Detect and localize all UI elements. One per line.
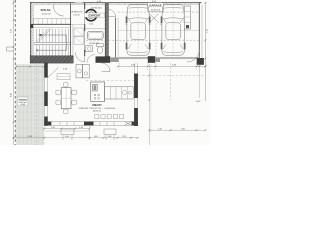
living room left wall (43, 63, 45, 126)
svg-text:DNEVNI PROSTOR + KUHINJA: DNEVNI PROSTOR + KUHINJA (79, 107, 115, 110)
car 2 (160, 5, 186, 56)
hallway wall (84, 3, 86, 56)
terrace paving (shaded) (16, 64, 44, 145)
skylight circle (bold) (85, 10, 96, 21)
svg-text:VETROLOV: VETROLOV (71, 12, 83, 14)
svg-text:5,75: 5,75 (11, 29, 13, 33)
svg-text:4,30: 4,30 (65, 136, 69, 138)
garage exterior door swing (187, 50, 199, 62)
top outer wall (30, 2, 202, 4)
svg-text:12,50 m2: 12,50 m2 (41, 13, 51, 15)
kitchen counter run (105, 87, 134, 99)
stair flight 1 treads (37, 29, 69, 42)
exterior dashed horizontal (138, 74, 205, 76)
dining table (61, 88, 71, 109)
sink (86, 46, 93, 52)
bench outside right (104, 129, 116, 134)
left bench flag (7, 47, 14, 51)
bathtub (87, 31, 103, 39)
vertical line below living room (89, 126, 91, 140)
garage door sill lines (118, 58, 199, 59)
dashed line upper garage (118, 11, 199, 13)
svg-text:+0,00: +0,00 (20, 104, 25, 106)
hallway door arc (75, 53, 84, 62)
terrace axis dashed (36, 64, 38, 145)
living room bottom wall with windows (44, 122, 138, 126)
hallway closet (74, 28, 84, 36)
garage bottom pier right (197, 58, 204, 65)
svg-text:31,90 m2: 31,90 m2 (151, 9, 161, 11)
bottom right dim chain (149, 129, 205, 131)
svg-text:1,40: 1,40 (108, 136, 112, 138)
kitchen island (91, 82, 105, 102)
car 1 (125, 5, 151, 56)
terrace top dim line (16, 66, 44, 68)
property line (vertical, left) (13, 0, 15, 145)
garage front dim line (118, 65, 205, 67)
svg-text:3,28: 3,28 (28, 136, 32, 138)
stair break line (36, 29, 51, 43)
bottom dim chain upper (44, 128, 89, 130)
exterior vertical line right of living room (148, 64, 150, 145)
dining chairs right (72, 90, 77, 95)
stair landing lines (34, 42, 71, 44)
skylight label band (84, 13, 105, 17)
exterior dashed axis (170, 63, 172, 100)
paper background (0, 0, 210, 145)
garage bottom pier left (105, 56, 110, 63)
svg-text:SPALNA: SPALNA (40, 9, 50, 12)
window bench squares (95, 115, 124, 119)
terrace door swing living room (48, 67, 59, 77)
left outer wall (hatched) (30, 2, 32, 63)
svg-text:2,15: 2,15 (158, 128, 162, 130)
room A closet band (34, 19, 71, 24)
svg-text:-0,02: -0,02 (196, 101, 202, 103)
garage axis dashed between cars (155, 23, 157, 57)
dining chairs left (56, 90, 61, 95)
dashed axis through living room (86, 80, 134, 82)
svg-text:1,50: 1,50 (51, 127, 55, 129)
svg-text:TERASA: TERASA (18, 98, 27, 101)
exterior wall line (198, 65, 200, 98)
garage bottom pier middle (148, 56, 155, 63)
garage label box (148, 3, 163, 12)
svg-text:EXPEDIT: EXPEDIT (89, 14, 101, 18)
stair walk line with arrow (37, 35, 67, 50)
sideboard (57, 74, 70, 80)
floor drain X mark (150, 14, 159, 23)
dining chair top (63, 109, 68, 113)
terrace label box (17, 97, 28, 106)
svg-text:1,35: 1,35 (122, 136, 126, 138)
bath right wall (hatched dark) (105, 3, 108, 62)
bath bottom wall (96, 56, 106, 62)
svg-text:1,40: 1,40 (94, 136, 98, 138)
garage right wall (198, 3, 200, 62)
svg-text:5,75: 5,75 (207, 29, 209, 33)
bottom dim chain main (14, 137, 138, 139)
right vertical dim line (204, 3, 206, 101)
heavy hatched wall block below stairs (30, 56, 73, 63)
kitchen wall counter (76, 64, 83, 78)
room A door arc (54, 6, 64, 16)
terrace door mark (125, 122, 132, 126)
bench outside left (61, 129, 74, 134)
garage shelf unit (184, 6, 190, 29)
svg-text:1,40: 1,40 (79, 127, 83, 129)
stair right wall (70, 3, 72, 56)
room divider wall below room A (31, 24, 71, 26)
window mullion ticks bottom (60, 122, 114, 126)
stair flight 2 treads (37, 45, 69, 55)
bath door arc (102, 63, 111, 72)
svg-text:8,40: 8,40 (11, 93, 13, 97)
svg-text:GARAGE: GARAGE (149, 4, 162, 8)
svg-text:4,10 m2: 4,10 m2 (73, 14, 80, 16)
svg-text:120 90 204: 120 90 204 (91, 7, 103, 9)
long dashed axis line through garage (86, 39, 199, 41)
svg-text:2,60: 2,60 (181, 128, 185, 130)
svg-text:48,50 m2: 48,50 m2 (93, 111, 102, 113)
living room right wall (133, 63, 135, 126)
garage entry door arc (109, 9, 116, 16)
svg-text:DNEVNY: DNEVNY (92, 105, 102, 107)
toilet (97, 44, 104, 47)
left dim ticks (13, 2, 15, 139)
garage left wall (115, 18, 117, 59)
entry door in top wall (75, 2, 84, 4)
setback line red dashed (14, 0, 16, 145)
